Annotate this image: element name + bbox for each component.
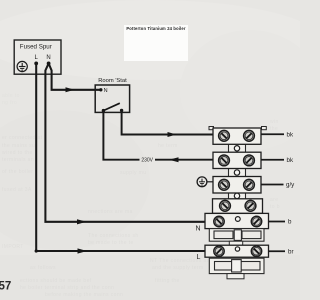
svg-text:ng fro: ng fro [2, 100, 17, 106]
boiler N spade strip [209, 229, 264, 242]
svg-text:are: are [270, 197, 278, 203]
svg-text:L: L [197, 254, 201, 261]
svg-text:of the boiler: of the boiler [2, 169, 33, 175]
svg-text:before making the mains conn: before making the mains conn [45, 292, 123, 298]
terminal block 1 (bk) [209, 127, 266, 145]
boiler L terminal block [205, 245, 269, 257]
wire: fused spur N to room stat [49, 63, 101, 89]
svg-text:230V: 230V [141, 158, 153, 164]
svg-text:g/y: g/y [286, 182, 295, 189]
tab between N strip and L block [229, 241, 242, 246]
wire: boiler terminal 2 (230V) to room stat [103, 111, 139, 160]
svg-text:ections should be made bef: ections should be made bef [20, 278, 92, 284]
svg-text:br: br [288, 248, 294, 255]
svg-text:able to: able to [2, 93, 20, 99]
svg-text:the: the [270, 126, 278, 132]
wire: boiler L to br [269, 250, 286, 252]
inter-block tab 2-3 [229, 166, 246, 179]
svg-text:to b: to b [270, 204, 280, 210]
svg-text:The connections sh: The connections sh [88, 233, 139, 239]
svg-text:win: win [270, 119, 279, 125]
svg-text:he term: he term [158, 143, 178, 149]
wire: room stat switch to boiler terminal 1 [122, 110, 213, 134]
svg-text:bk: bk [287, 132, 294, 139]
hole between block 3 and 4 [234, 193, 239, 198]
arrowhead (pointing back to stat) [169, 157, 179, 162]
inter-block tab 3-4 [229, 191, 246, 201]
boiler L spade strip [209, 258, 264, 273]
terminal L (fused spur) [34, 55, 38, 65]
svg-text:terminals an: terminals an [2, 157, 34, 163]
svg-text:57: 57 [0, 281, 11, 293]
fused spur FS1 box [14, 40, 61, 74]
wire: terminal 2 to bk [261, 159, 284, 161]
svg-text:fused at 3A: fused at 3A [2, 187, 32, 193]
hole between block 2 and 3 [234, 170, 239, 175]
svg-text:Room 'Stat: Room 'Stat [98, 78, 127, 84]
arrowhead on L wire [78, 248, 88, 253]
svg-text:he boiler terminal strip and t: he boiler terminal strip and the conn [20, 285, 114, 291]
room stat RS1 box [95, 85, 129, 112]
svg-text:nnections are ma: nnections are ma [88, 209, 133, 215]
svg-text:N: N [104, 88, 108, 94]
svg-text:and the supply term: and the supply term [152, 265, 204, 271]
svg-text:Fused Spur: Fused Spur [20, 43, 52, 50]
terminal N (fused spur) [46, 55, 50, 65]
svg-text:bk: bk [287, 157, 294, 164]
svg-text:Potterton Titanium 24 boiler: Potterton Titanium 24 boiler [126, 26, 186, 31]
arrowhead on room stat feed [66, 87, 75, 92]
wire: boiler N to b [269, 221, 286, 223]
svg-text:supply mu: supply mu [120, 170, 146, 176]
svg-text:N: N [196, 226, 201, 233]
terminal block 3 (earth, g/y) [213, 177, 261, 194]
arrowhead to terminal 1 [168, 132, 177, 137]
hole between block 1 and 2 [234, 146, 239, 151]
arrowhead on N wire [77, 219, 87, 224]
earth symbol (fused spur) [17, 61, 27, 71]
svg-text:IMPORT: IMPORT [2, 244, 24, 250]
boiler N terminal block [205, 213, 269, 228]
terminal N (room stat) [99, 88, 107, 94]
switch (room stat) [102, 103, 124, 112]
bottom tab of L strip [227, 274, 244, 279]
earth symbol at terminal block 3 [197, 177, 213, 187]
title label: Potterton Titanium 24 boiler [124, 25, 188, 61]
svg-text:fitting the: fitting the [155, 278, 180, 284]
svg-text:b: b [288, 219, 292, 226]
ghost bleed-through text (page reverse) [2, 93, 280, 298]
inter-block tab 1-2 [229, 142, 246, 154]
wire: fused spur N down to boiler N terminal [45, 63, 206, 221]
junction dot at L corner [35, 249, 38, 252]
wire: fused spur L down to boiler L terminal [36, 63, 206, 251]
wire: terminal 3 to g/y [261, 184, 284, 186]
svg-text:wired to the: wired to the [2, 150, 33, 156]
wire: terminal 1 to bk [261, 133, 284, 135]
terminal block 2 (bk) [213, 152, 261, 168]
svg-text:the mains su: the mains su [2, 143, 35, 149]
svg-text:be made to the te: be made to the te [88, 240, 134, 246]
svg-text:as follows: as follows [30, 265, 56, 271]
terminal block 4 [213, 199, 263, 214]
svg-text:N: N [46, 55, 50, 61]
